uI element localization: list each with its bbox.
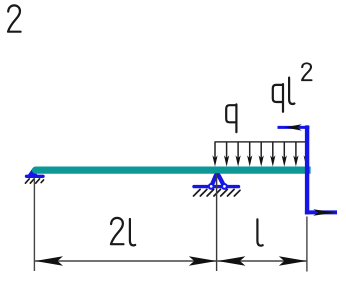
label ql^2 (moment value): [273, 63, 312, 112]
ground hatching at support A: [25, 179, 43, 183]
dimension label l: [257, 219, 262, 245]
dimension arrowhead right of l: [279, 256, 307, 266]
extension line at support B: [216, 174, 218, 272]
moment bottom force shaft: [305, 210, 337, 214]
ground hatching at support B: [194, 189, 241, 196]
moment bottom force arrowhead (right): [313, 209, 335, 215]
extension line at support A: [33, 178, 35, 271]
dimension line: [35, 260, 307, 262]
support A ground bar: [27, 175, 44, 178]
distributed load q arrows: [212, 142, 308, 167]
label q (load intensity): [226, 104, 236, 132]
distributed load q top line: [215, 141, 307, 143]
moment top force arrowhead (left): [284, 124, 302, 130]
dimension arrowhead left of 2l: [35, 256, 63, 266]
extension line at beam right end: [306, 217, 308, 272]
support B (middle roller) triangle legs: [211, 175, 224, 186]
support B roller circles: [209, 184, 214, 189]
beam: [32, 167, 311, 174]
support B ground bar: [194, 185, 239, 188]
dimension arrowhead left of l: [217, 256, 245, 266]
moment couple ql^2 vertical link: [305, 125, 309, 214]
problem number "2": [8, 5, 21, 31]
dimension arrowhead right of 2l: [189, 256, 217, 266]
moment top force shaft: [278, 126, 310, 129]
support A (left pin) triangle: [27, 168, 39, 177]
dimension label 2l: [111, 218, 135, 246]
